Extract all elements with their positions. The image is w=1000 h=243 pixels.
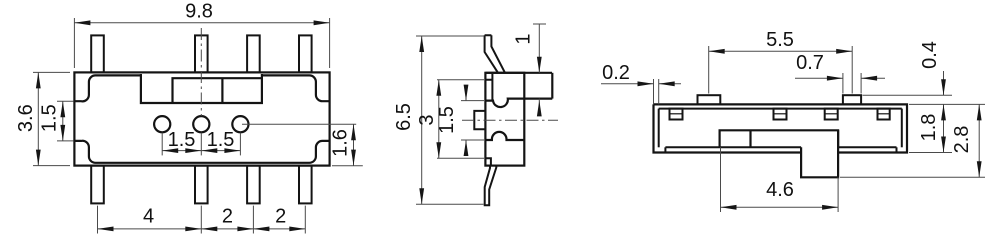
dimension 0.7 line with outside arrows	[795, 77, 843, 79]
svg-text:1.6: 1.6	[330, 129, 352, 157]
view2 bottom gull-wing pin	[485, 166, 497, 206]
view2 cover flap upper line with U cutout and knob bottom	[485, 99, 552, 107]
view3 inner cover line top	[659, 108, 902, 110]
pin pitch dim line 4	[98, 228, 202, 230]
view3 inner cover line left	[658, 109, 660, 148]
dimension 0.2 line with outside arrows	[601, 83, 654, 85]
view3 top knob 2	[843, 95, 861, 104]
svg-text:0.2: 0.2	[602, 62, 630, 84]
view1 top pin 2	[195, 35, 208, 72]
svg-text:2.8: 2.8	[951, 126, 973, 154]
dimension 9.8 line with arrows	[74, 22, 329, 24]
dimension 3 line with arrows	[438, 80, 440, 159]
hole spacing 1.5 dim line left	[162, 150, 201, 152]
svg-text:2: 2	[275, 206, 286, 228]
view2 bottom-left corner step	[485, 158, 491, 165]
dimension 3.6 line with arrows	[37, 72, 39, 165]
dimension 6.5 line with arrows	[421, 36, 423, 204]
view1 extension line below center hole	[200, 133, 202, 156]
dimension 2.8 extension line bottom	[840, 176, 985, 178]
view1 bottom pin 3	[247, 166, 260, 204]
dimension 4.6 line with arrows	[721, 206, 839, 208]
view1 bottom pin 1	[91, 166, 104, 204]
view2 top-left corner step	[485, 74, 492, 101]
svg-text:3.6: 3.6	[15, 104, 37, 132]
dimension 1.5 left extension lines	[57, 100, 74, 102]
view3 inner cover corner steps	[664, 147, 666, 152]
pin pitch dim line 2 (b)	[253, 228, 305, 230]
view1 extension line from right hole to 1.6 dim	[242, 123, 356, 125]
svg-text:4: 4	[143, 206, 154, 228]
view1 bottom pin 2	[195, 166, 208, 204]
hole spacing extension lines	[161, 133, 163, 156]
dimension 4.6 extension lines	[720, 147, 722, 212]
dimension 1.6 line with arrows	[353, 124, 355, 165]
view1 top pin 3	[247, 35, 260, 72]
view1 vertical center line through pin2	[200, 28, 202, 116]
dimension 3.6 extension lines	[33, 71, 70, 73]
view1 contact hole 3	[232, 116, 248, 132]
dimension 1.5 left line with arrows	[62, 101, 64, 141]
svg-text:5.5: 5.5	[766, 29, 794, 51]
svg-text:6.5: 6.5	[393, 103, 415, 131]
view1 contact hole 2	[193, 116, 209, 132]
svg-text:9.8: 9.8	[185, 1, 213, 23]
view3 window divider	[749, 130, 751, 147]
dimension 0.4 line with arrow	[943, 71, 945, 95]
dimension 1.6 extension line bottom	[332, 165, 363, 167]
view3 top knob 1	[698, 95, 721, 104]
hole spacing 1.5 dim line right	[201, 150, 240, 152]
view1 switch body outline (top view)	[74, 72, 329, 165]
dimension 6.5 extension lines	[416, 35, 484, 37]
view1 top pin 1	[91, 35, 104, 72]
dimension 3 extension lines	[437, 79, 484, 81]
view3 cover clip tab 1	[670, 109, 683, 120]
view1 metal cover inner contour	[74, 75, 140, 101]
dimension 5.5 line with arrows	[709, 50, 853, 52]
svg-text:3: 3	[416, 114, 438, 125]
view3 cover clip tab 2	[774, 109, 787, 120]
svg-text:1.5: 1.5	[207, 129, 235, 151]
svg-text:1.5: 1.5	[39, 104, 61, 132]
view1 contact hole 1	[154, 116, 170, 132]
svg-text:4.6: 4.6	[766, 179, 794, 201]
view1 slider knob	[173, 78, 262, 103]
svg-text:0.7: 0.7	[796, 52, 824, 74]
dimension 1.5 mid line with outside arrows	[465, 89, 467, 101]
dimension 5.5 extension lines	[708, 46, 710, 94]
dimension 1.5 mid extension lines	[461, 100, 484, 102]
pin pitch dim line 2 (a)	[201, 228, 253, 230]
dimension 2.8 line with arrows	[978, 104, 980, 177]
dimension 0.7 extension lines	[842, 73, 844, 94]
view1 bottom pin 4	[299, 166, 312, 204]
dimension 9.8 extension lines	[73, 18, 75, 68]
view2 body outline (side view)	[485, 73, 524, 166]
svg-text:1: 1	[513, 33, 535, 44]
dimension 0.2 extension lines	[653, 79, 655, 104]
view2 locating peg on left	[474, 111, 485, 129]
view3 cover clip tab 4	[878, 109, 890, 120]
view2 horizontal center line	[462, 119, 558, 121]
view2 slider knob (side)	[551, 73, 553, 99]
view3 inner cover line right	[901, 109, 903, 148]
view1 top pin 4	[299, 35, 312, 72]
view3 cover clip tab 3	[825, 109, 838, 120]
dimension 1.8 extension lines	[909, 103, 985, 105]
dimension 0.4 extension line	[863, 94, 953, 96]
view3 body outline (front view)	[654, 104, 908, 152]
view3 bottom tab (knob from front)	[801, 130, 838, 177]
pin pitch extension lines	[97, 206, 99, 234]
view1 slider window opening	[141, 74, 262, 103]
dimension 1 leader and arrows	[533, 23, 546, 25]
svg-text:1.8: 1.8	[918, 114, 940, 142]
view3 slider window	[720, 130, 839, 147]
svg-text:2: 2	[222, 206, 233, 228]
svg-text:0.4: 0.4	[919, 41, 941, 69]
view3 inner cover line bottom	[665, 146, 801, 148]
view2 cover flap lower line with arch cutout	[485, 132, 524, 140]
view2 top edge extension over knob	[485, 72, 552, 74]
view1 slider knob divider line	[221, 78, 223, 103]
dimension 1.8 line with arrows	[943, 104, 945, 152]
svg-text:1.5: 1.5	[168, 129, 196, 151]
view2 top gull-wing pin	[485, 35, 505, 73]
svg-text:1.5: 1.5	[436, 106, 458, 134]
